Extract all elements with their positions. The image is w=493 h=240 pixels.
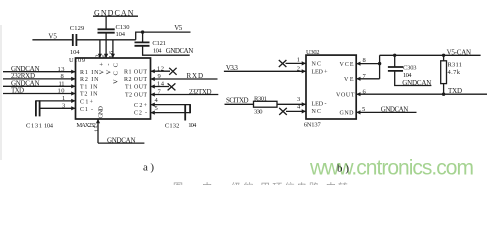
svg-text:104: 104 <box>116 31 126 38</box>
svg-text:12: 12 <box>157 65 164 72</box>
node C303 junction <box>393 54 396 57</box>
svg-text:1: 1 <box>62 95 65 102</box>
wire C121 upper stub <box>142 32 144 42</box>
svg-text:C129: C129 <box>70 25 85 32</box>
svg-text:R2 OUT: R2 OUT <box>124 77 147 83</box>
svg-text:V5: V5 <box>174 24 183 32</box>
svg-text:C303: C303 <box>403 64 417 71</box>
svg-text:330: 330 <box>254 109 263 116</box>
resistor R301 body <box>254 101 278 107</box>
pin arrow 6 <box>356 92 360 96</box>
wire net TXD to pin 10 <box>3 93 76 95</box>
svg-text:T2 IN: T2 IN <box>80 92 98 98</box>
pin arrow 3 <box>71 106 75 110</box>
svg-text:8: 8 <box>61 73 64 80</box>
svg-text:V5: V5 <box>48 33 57 41</box>
node pin8 junction <box>378 62 381 65</box>
pin arrow 13 <box>71 70 75 74</box>
capacitor C130 plates <box>98 29 115 32</box>
pin arrow 5 <box>356 110 360 114</box>
svg-text:10: 10 <box>58 88 65 95</box>
svg-text:2: 2 <box>297 65 300 72</box>
wire pin 3 C1- <box>40 107 76 109</box>
svg-text:5: 5 <box>362 106 365 113</box>
scan edge left <box>0 25 2 160</box>
svg-text:LED +: LED + <box>312 70 329 76</box>
pin arrow 11 <box>71 84 75 88</box>
svg-text:104: 104 <box>153 47 162 54</box>
wire C130 to pin 6 V- <box>105 33 107 58</box>
svg-text:C1+: C1+ <box>80 100 94 106</box>
wire pin 7 VE <box>356 78 379 80</box>
node R311 junction <box>442 54 445 57</box>
svg-text:GNDCAN: GNDCAN <box>94 8 134 17</box>
wire GNDCAN to C130 <box>105 16 107 29</box>
svg-text:R1 OUT: R1 OUT <box>124 69 147 75</box>
wire net 232TXD from pin 7 <box>151 94 219 96</box>
wire riser to V5 rail <box>136 32 191 40</box>
wire C303 to GNDCAN <box>395 71 432 86</box>
svg-text:232TXD: 232TXD <box>189 88 212 96</box>
svg-text:图— 中 一级的 甲环信电路 中转: 图— 中 一级的 甲环信电路 中转 <box>173 181 348 185</box>
svg-text:GND: GND <box>98 106 105 119</box>
svg-text:R311: R311 <box>448 61 463 68</box>
pin arrow 8 <box>356 62 360 66</box>
capacitor C121 plates <box>135 42 150 45</box>
svg-text:V -: V - <box>105 64 112 75</box>
wire R301 to pin 3 <box>277 103 306 105</box>
svg-text:2: 2 <box>96 55 102 58</box>
svg-text:T1 OUT: T1 OUT <box>125 85 147 91</box>
svg-text:U109: U109 <box>69 57 85 64</box>
pin arrow 7 <box>151 92 155 96</box>
wire GNDCAN top rail <box>93 15 138 17</box>
wire pin 14 stub <box>151 86 170 88</box>
svg-text:C131: C131 <box>26 122 42 129</box>
svg-text:104: 104 <box>188 122 197 129</box>
op-amp U109 MAX232 box <box>76 58 151 119</box>
pin arrow 7 <box>356 77 360 81</box>
wire R311 upper stub <box>443 55 445 61</box>
svg-text:R2 IN: R2 IN <box>80 77 99 83</box>
svg-text:NC: NC <box>312 62 322 68</box>
wire pin 15 GND <box>97 119 99 143</box>
svg-text:3: 3 <box>297 96 300 103</box>
wire C121 to GNDCAN <box>143 46 190 55</box>
svg-text:TXD: TXD <box>448 87 462 95</box>
svg-text:GNDCAN: GNDCAN <box>166 47 194 55</box>
svg-text:LED -: LED - <box>312 102 327 108</box>
svg-text:104: 104 <box>44 122 54 129</box>
capacitor C303 plates <box>388 67 403 71</box>
pin arrow 1 <box>71 99 75 103</box>
pin arrow 12 <box>151 69 155 73</box>
pin arrow 2 top <box>98 54 102 58</box>
svg-text:C121: C121 <box>152 40 166 47</box>
wire pin 5 C2- <box>151 112 191 114</box>
svg-text:VE: VE <box>344 77 354 83</box>
svg-text:C2+: C2+ <box>134 103 148 109</box>
pin arrow 5 <box>151 111 155 115</box>
svg-text:VCC: VCC <box>113 63 120 84</box>
svg-text:GNDCAN: GNDCAN <box>107 136 136 144</box>
svg-text:4.7k: 4.7k <box>448 69 461 76</box>
svg-text:MAX232: MAX232 <box>76 122 96 129</box>
wire pin 1 C1+ <box>36 100 76 102</box>
svg-text:R1 IN: R1 IN <box>80 70 99 76</box>
wire net 232RXD to pin 8 <box>3 78 76 80</box>
capacitor C132 plates <box>185 104 190 120</box>
svg-text:GNDCAN: GNDCAN <box>402 79 431 87</box>
svg-text:TXD: TXD <box>11 87 24 95</box>
pin arrow 4 <box>151 103 155 107</box>
svg-text:T1 IN: T1 IN <box>80 85 98 91</box>
svg-text:www.cntronics.com: www.cntronics.com <box>309 157 474 180</box>
svg-text:R301: R301 <box>254 96 267 103</box>
svg-text:1: 1 <box>297 56 300 63</box>
svg-text:104: 104 <box>70 49 80 56</box>
wire pin 4 C2+ <box>151 104 191 106</box>
wire net GNDCAN to pin 13 <box>3 71 76 73</box>
no-connect X pin 4 <box>279 108 287 115</box>
wire V5 to C129 <box>32 39 72 41</box>
svg-text:C2 -: C2 - <box>134 111 147 117</box>
svg-text:5: 5 <box>155 105 158 112</box>
svg-text:NC: NC <box>312 109 322 115</box>
node TXD junction <box>442 93 445 96</box>
node V5 junction <box>141 30 144 33</box>
pin arrow 3 <box>302 102 306 106</box>
wire pin 12 stub <box>151 70 171 72</box>
capacitor C129 plates <box>73 34 77 46</box>
svg-text:RXD: RXD <box>187 72 204 80</box>
svg-text:VCE: VCE <box>340 62 354 68</box>
wire pin 1 stub <box>286 62 307 64</box>
wire V5-CAN rail <box>380 54 481 56</box>
op-amp U302 6N137 box <box>306 55 356 119</box>
wire net GNDCAN from pin 5 <box>356 111 416 113</box>
wire C303 upper stub <box>394 55 396 67</box>
svg-text:13: 13 <box>58 66 65 73</box>
svg-text:4: 4 <box>155 97 159 104</box>
svg-text:V3.3: V3.3 <box>226 64 239 72</box>
wire riser pin8 to V5-CAN rail <box>379 55 381 63</box>
svg-text:VOUT: VOUT <box>336 92 355 98</box>
wire net SCITXD to R301 <box>225 103 254 105</box>
svg-text:U302: U302 <box>306 49 320 56</box>
svg-text:GND: GND <box>340 111 355 117</box>
svg-text:11: 11 <box>59 81 65 88</box>
no-connect X pin 12 <box>169 68 176 75</box>
pin arrow 4 <box>302 109 306 113</box>
svg-text:C1 -: C1 - <box>80 107 93 113</box>
wire pin 4 stub <box>286 110 306 112</box>
pin arrow 8 <box>71 77 75 81</box>
pin arrow 6 top <box>104 54 108 58</box>
wire C129 to V+ rail <box>77 39 136 41</box>
wire pin 16 VCC <box>112 40 114 58</box>
svg-text:a): a) <box>143 162 154 174</box>
wire R311 lower stub <box>443 84 445 95</box>
svg-text:T2 OUT: T2 OUT <box>125 93 147 99</box>
wire net TXD from pin 6 VOUT <box>356 93 487 95</box>
svg-text:8: 8 <box>363 57 366 64</box>
no-connect X pin 1 <box>279 60 287 67</box>
wire pin 8 VCE <box>356 63 379 65</box>
no-connect X pin 14 <box>168 83 176 90</box>
capacitor C131 plates <box>36 100 40 116</box>
pin arrow 16 top <box>111 54 115 58</box>
wire net GNDCAN to pin 11 <box>3 85 76 87</box>
svg-text:GNDCAN: GNDCAN <box>381 106 409 114</box>
pin arrow 14 <box>151 84 155 88</box>
svg-text:C132: C132 <box>165 123 180 130</box>
wire pin8 to pin7 link <box>379 64 381 79</box>
svg-text:V5-CAN: V5-CAN <box>447 48 472 56</box>
pin arrow 2 <box>302 69 306 73</box>
svg-text:14: 14 <box>157 81 165 88</box>
svg-text:15: 15 <box>95 126 101 133</box>
wire pin 2 V+ <box>99 40 101 58</box>
wire net RXD from pin 9 <box>151 78 218 80</box>
svg-text:SCITXD: SCITXD <box>226 97 249 105</box>
wire net V3.3 to pin 2 <box>224 70 306 72</box>
svg-text:6N137: 6N137 <box>304 121 322 128</box>
svg-text:3: 3 <box>62 103 65 110</box>
svg-text:C130: C130 <box>116 24 130 31</box>
svg-text:16: 16 <box>109 51 115 58</box>
svg-text:9: 9 <box>158 73 161 80</box>
svg-text:6: 6 <box>102 55 108 58</box>
wire GNDCAN bottom rail <box>98 142 144 144</box>
pin arrow 9 <box>151 77 155 81</box>
resistor R311 body <box>441 61 447 84</box>
pin arrow 15 bottom <box>96 119 100 123</box>
pin arrow 1 <box>302 61 306 65</box>
pin arrow 10 <box>71 91 75 95</box>
